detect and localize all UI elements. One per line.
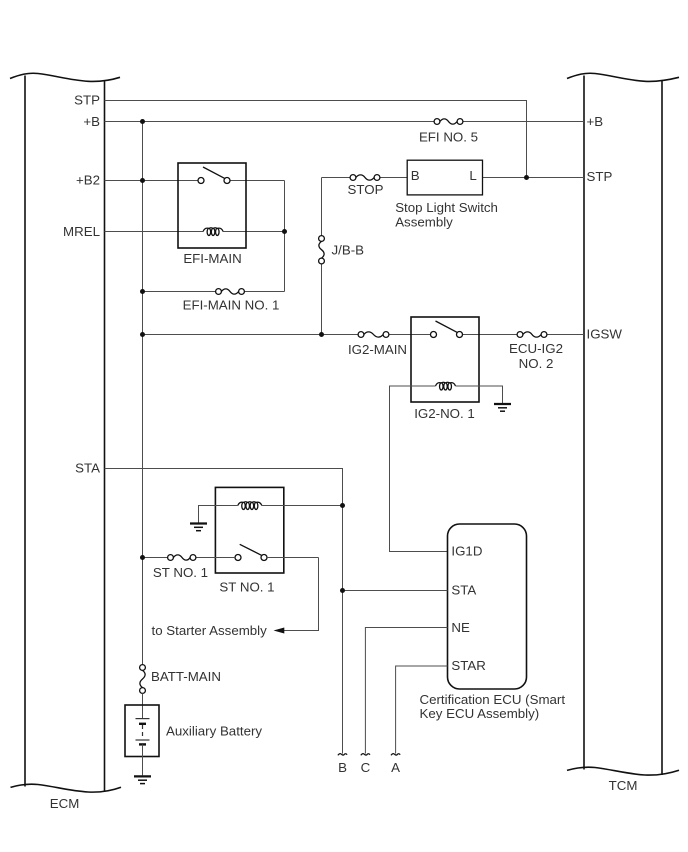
relay IG2-NO. 1 xyxy=(411,317,479,402)
main battery rail (vertical) xyxy=(142,122,144,665)
svg-text:+B2: +B2 xyxy=(76,173,100,188)
fuse IG2-MAIN xyxy=(358,332,389,338)
wire STP from ECM to junction xyxy=(105,101,527,178)
wire ST coil to STA rail xyxy=(262,505,343,507)
svg-text:IG2-MAIN: IG2-MAIN xyxy=(348,342,407,357)
battery box Auxiliary Battery xyxy=(125,705,159,757)
fuse BATT-MAIN (vertical) xyxy=(140,665,146,694)
svg-text:B: B xyxy=(338,760,347,775)
ECM connector bar xyxy=(10,73,121,792)
junction dot MREL coil xyxy=(282,229,287,234)
svg-text:Auxiliary Battery: Auxiliary Battery xyxy=(166,724,262,739)
wire STAR pin to terminal A xyxy=(396,666,448,754)
svg-text:J/B-B: J/B-B xyxy=(332,243,365,258)
svg-text:STA: STA xyxy=(451,583,476,598)
label Stop Light Switch Assembly xyxy=(395,200,498,230)
junction dot IGSW rail xyxy=(140,332,145,337)
wire battery to ground xyxy=(142,744,144,775)
junction dot +B2 rail xyxy=(140,178,145,183)
svg-text:ST NO. 1: ST NO. 1 xyxy=(153,565,208,580)
svg-text:STAR: STAR xyxy=(451,658,485,673)
wire IGSW row from rail to TCM xyxy=(143,334,585,336)
junction dot STA pin xyxy=(340,588,345,593)
TCM connector bar xyxy=(567,73,679,775)
fuse ECU-IG2 NO. 2 xyxy=(517,332,547,338)
svg-text:EFI NO. 5: EFI NO. 5 xyxy=(419,130,478,145)
ground (battery) xyxy=(134,776,151,783)
ground (ST NO. 1 coil) xyxy=(190,524,207,531)
svg-text:STOP: STOP xyxy=(348,182,384,197)
wire MREL from ECM to relay coil xyxy=(105,231,285,233)
connector J/B-B xyxy=(319,236,325,264)
relay ST NO. 1 xyxy=(215,487,283,573)
svg-text:STA: STA xyxy=(75,461,100,476)
junction block J/B-B vertical wire xyxy=(321,178,323,335)
svg-text:STP: STP xyxy=(74,93,100,108)
junction dot +B rail xyxy=(140,119,145,124)
wire +B2 from ECM through EFI-MAIN contact xyxy=(105,181,285,292)
svg-text:A: A xyxy=(391,760,400,775)
svg-text:IG2-NO. 1: IG2-NO. 1 xyxy=(414,406,475,421)
svg-text:IG1D: IG1D xyxy=(451,544,482,559)
wire ST NO. 1 fuse row xyxy=(143,557,319,559)
wire IG2 coil to IG1D xyxy=(390,386,448,552)
junction dot EFI-MAIN NO.1 rail xyxy=(140,289,145,294)
svg-text:BATT-MAIN: BATT-MAIN xyxy=(151,669,221,684)
ECU box Certification ECU xyxy=(448,524,527,689)
svg-text:ST NO. 1: ST NO. 1 xyxy=(219,580,274,595)
junction dot STA coil xyxy=(340,503,345,508)
wire to starter assembly xyxy=(277,558,319,631)
ground (IG2-NO. 1 coil) xyxy=(494,404,511,411)
terminal B xyxy=(338,754,347,756)
wire ST coil to ground xyxy=(199,506,238,523)
terminal A xyxy=(391,754,400,756)
svg-text:IGSW: IGSW xyxy=(587,327,623,342)
fuse label ECU-IG2 NO. 2 xyxy=(509,341,563,371)
fuse EFI NO. 5 xyxy=(434,119,463,125)
wire STA pin to terminal B xyxy=(343,591,448,754)
fuse STOP xyxy=(350,175,380,181)
svg-text:EFI-MAIN: EFI-MAIN xyxy=(183,251,241,266)
wire NE pin to terminal C xyxy=(365,628,447,754)
junction dot ST fuse rail xyxy=(140,555,145,560)
arrowhead to starter xyxy=(274,628,285,634)
svg-text:NO. 2: NO. 2 xyxy=(519,356,554,371)
wire STA from ECM xyxy=(105,469,343,591)
svg-text:Key ECU Assembly): Key ECU Assembly) xyxy=(420,706,540,721)
wire STOP row xyxy=(322,177,585,179)
svg-text:EFI-MAIN NO. 1: EFI-MAIN NO. 1 xyxy=(183,298,280,313)
junction dot J/B-B IGSW xyxy=(319,332,324,337)
svg-text:L: L xyxy=(469,168,476,183)
battery symbol xyxy=(136,719,150,745)
label Certification ECU xyxy=(420,692,566,721)
svg-text:+B: +B xyxy=(83,114,100,129)
terminal C xyxy=(361,754,370,756)
svg-text:MREL: MREL xyxy=(63,224,100,239)
svg-text:B: B xyxy=(411,168,420,183)
svg-text:TCM: TCM xyxy=(609,778,638,793)
wire fuse to battery xyxy=(142,693,144,718)
svg-text:NE: NE xyxy=(451,620,470,635)
fuse ST NO. 1 xyxy=(168,555,196,561)
svg-text:Stop Light Switch: Stop Light Switch xyxy=(395,200,498,215)
svg-text:ECU-IG2: ECU-IG2 xyxy=(509,341,563,356)
svg-text:to Starter Assembly: to Starter Assembly xyxy=(152,623,268,638)
wire EFI-MAIN NO. 1 branch xyxy=(143,291,285,293)
svg-text:+B: +B xyxy=(587,114,604,129)
svg-text:ECM: ECM xyxy=(50,796,80,811)
switch box Stop Light Switch Assembly xyxy=(407,160,482,195)
wire +B from ECM to TCM xyxy=(105,121,585,123)
wire IG2 coil to ground xyxy=(456,386,503,403)
svg-text:Certification ECU (Smart: Certification ECU (Smart xyxy=(420,692,566,707)
svg-text:Assembly: Assembly xyxy=(395,214,453,229)
svg-text:STP: STP xyxy=(587,169,613,184)
svg-text:C: C xyxy=(361,760,371,775)
relay EFI-MAIN xyxy=(178,163,246,248)
fuse EFI-MAIN NO. 1 xyxy=(216,289,245,295)
junction dot STP xyxy=(524,175,529,180)
